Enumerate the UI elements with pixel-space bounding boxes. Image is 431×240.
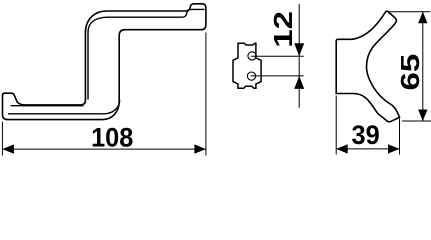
plate outline (233, 43, 261, 88)
svg-text:12: 12 (269, 11, 298, 48)
dimension line 65 (422, 12, 424, 121)
hole bottom (247, 72, 255, 80)
arrow 65 top (418, 12, 427, 23)
fillet line bottom mid (8, 100, 120, 114)
extension line from bottom hole (251, 75, 304, 77)
dimension line 39 (336, 148, 399, 150)
arrow 12 bottom (outside, pointing up) (294, 76, 304, 89)
extension line left 108 (1, 122, 3, 156)
hook outline (3, 4, 206, 120)
fillet line bottom flat (11, 105, 84, 107)
front outline (336, 11, 399, 122)
arrow 39 right (388, 144, 400, 153)
extension line from top hole (251, 55, 304, 57)
svg-text:108: 108 (91, 122, 133, 153)
dimension line 12 (298, 4, 300, 108)
extension line 39 left (335, 96, 337, 155)
arrow 12 top (outside, pointing down) (294, 43, 304, 56)
extension line 39 right (399, 119, 401, 155)
svg-text:65: 65 (396, 54, 425, 91)
arrow left (2, 144, 14, 153)
svg-text:39: 39 (352, 119, 380, 150)
fillet line top (88, 9, 205, 99)
hole top (248, 52, 256, 60)
extension line right 108 (205, 33, 207, 156)
extension line 65 bottom (402, 120, 431, 122)
dimension line 108 (2, 148, 206, 150)
extension line 65 top (388, 11, 431, 13)
arrow 65 bottom (418, 110, 427, 122)
arrow 39 left (336, 144, 348, 153)
arrow right (194, 144, 206, 153)
